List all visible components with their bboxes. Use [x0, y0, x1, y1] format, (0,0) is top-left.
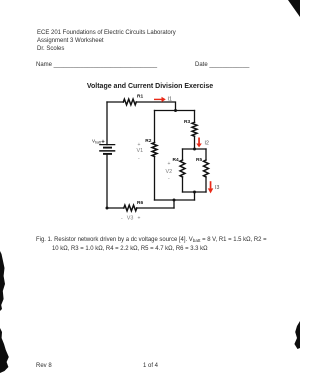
- svg-text:I1: I1: [168, 97, 172, 103]
- svg-text:+: +: [138, 142, 141, 148]
- svg-text:V2: V2: [166, 169, 173, 175]
- svg-text:R1: R1: [137, 93, 143, 99]
- svg-text:-: -: [168, 176, 170, 182]
- svg-text:R3: R3: [184, 119, 190, 125]
- svg-text:R2: R2: [145, 138, 151, 144]
- svg-text:+: +: [101, 140, 105, 146]
- svg-text:-: -: [138, 156, 140, 162]
- svg-text:V1: V1: [137, 148, 144, 154]
- svg-text:R5: R5: [196, 157, 202, 163]
- svg-text:-: -: [121, 215, 123, 221]
- svg-text:I3: I3: [215, 185, 219, 191]
- svg-text:R6: R6: [137, 200, 143, 206]
- svg-text:R4: R4: [173, 157, 179, 163]
- svg-text:+: +: [168, 161, 171, 167]
- svg-text:V3: V3: [127, 216, 134, 222]
- svg-text:+: +: [138, 215, 141, 221]
- svg-text:I2: I2: [205, 140, 209, 146]
- svg-text:Vbatt: Vbatt: [92, 138, 101, 144]
